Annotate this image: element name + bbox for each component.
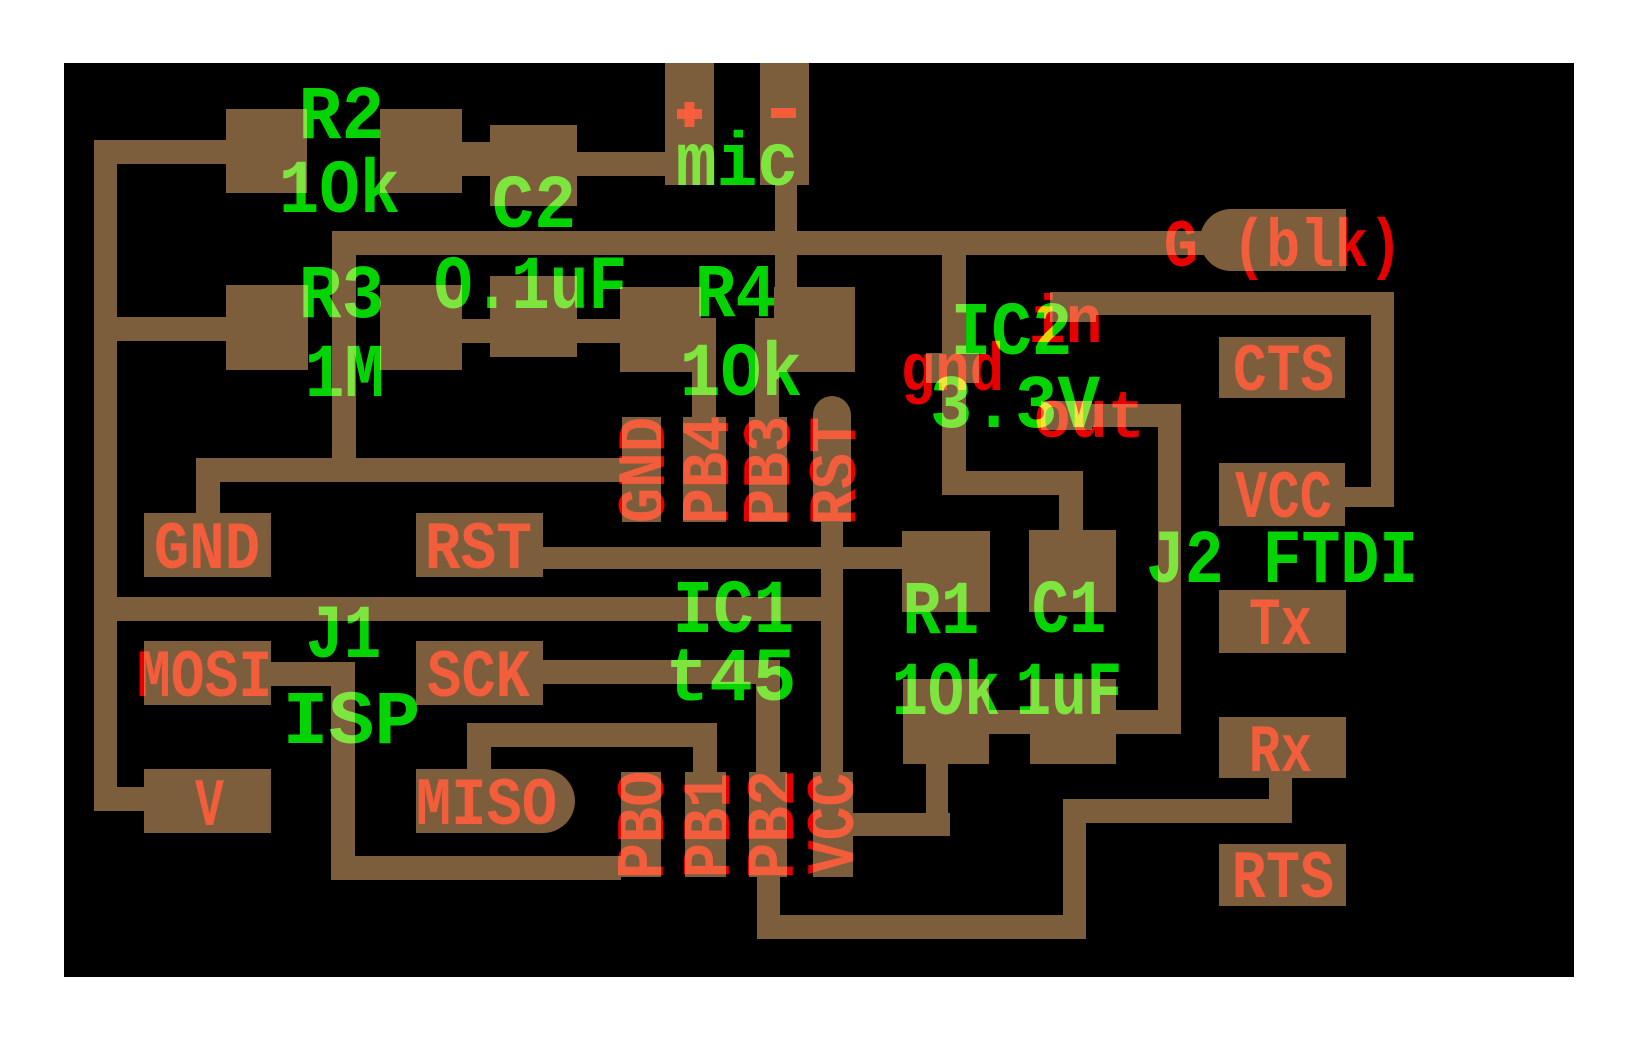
resistor R1 pad bottom bbox=[903, 679, 989, 764]
svg-text:GND: GND bbox=[154, 512, 260, 589]
wire Rx horizontal bbox=[1063, 799, 1292, 823]
header pad MOSI bbox=[144, 641, 271, 705]
wire H5 RST trace bbox=[543, 547, 902, 569]
svg-text:R4: R4 bbox=[695, 253, 777, 339]
mic pad minus bbox=[760, 63, 809, 185]
wire PB2 drop bottom bbox=[757, 877, 780, 939]
wire MISO up-leg bbox=[467, 723, 491, 769]
svg-text:J1: J1 bbox=[306, 594, 382, 680]
wire H2 to R3L bbox=[94, 317, 226, 341]
svg-text:MOSI: MOSI bbox=[137, 640, 272, 717]
svg-text:VCC: VCC bbox=[797, 773, 874, 874]
wire loop vertical right bbox=[1371, 292, 1394, 507]
wire PB3 drop bbox=[755, 318, 779, 417]
svg-text:in: in bbox=[1029, 286, 1103, 363]
mic plus mark bbox=[677, 109, 702, 119]
header pad SCK bbox=[416, 641, 543, 705]
wire MOSI link bbox=[271, 662, 355, 686]
wire mic- vertical bbox=[775, 185, 797, 287]
svg-text:t45: t45 bbox=[666, 637, 797, 723]
wire PB2 drop top bbox=[756, 684, 780, 772]
wire R1-C1 bridge bbox=[903, 710, 1031, 734]
FTDI pad Rx bbox=[1219, 717, 1346, 778]
resistor R3 pad right bbox=[380, 285, 462, 370]
IC1 pin PB1 bbox=[685, 772, 726, 877]
wire GND header drop bbox=[196, 482, 220, 513]
IC2 out pad bbox=[1041, 401, 1092, 430]
pad G blk stadium bbox=[1200, 209, 1262, 271]
wire out bar bbox=[1041, 404, 1179, 427]
wire PB4 drop bbox=[692, 318, 716, 417]
svg-text:gnd: gnd bbox=[901, 334, 1005, 411]
header pad V bbox=[144, 769, 271, 833]
FTDI pad VCC bbox=[1219, 463, 1345, 526]
capacitor C2 pad top bbox=[490, 125, 577, 206]
capacitor C1 pad bottom bbox=[1030, 679, 1116, 764]
wire SCK link bbox=[543, 660, 780, 684]
resistor R2 pad right bbox=[380, 109, 462, 193]
svg-text:RTS: RTS bbox=[1232, 841, 1334, 918]
capacitor C1 pad top bbox=[1029, 530, 1116, 612]
resistor R3 pad left bbox=[226, 285, 308, 370]
svg-text:C1: C1 bbox=[1032, 569, 1106, 655]
svg-text:RST: RST bbox=[799, 417, 876, 525]
wire R3R-C2B-R4L bbox=[462, 319, 620, 343]
svg-text:Rx: Rx bbox=[1249, 715, 1312, 792]
wire C1R link bbox=[1110, 710, 1181, 734]
wire PB1 drop bbox=[693, 747, 717, 772]
wire R2R to C2T bbox=[462, 142, 490, 176]
header pad GND bbox=[144, 513, 271, 577]
svg-text:CTS: CTS bbox=[1233, 334, 1334, 411]
wire C2T to mic+ bbox=[577, 152, 665, 176]
pad RST stadium bbox=[813, 396, 851, 434]
svg-text:C2: C2 bbox=[492, 164, 577, 250]
svg-text:mic: mic bbox=[676, 122, 798, 208]
wire 3.3V horizontal bbox=[833, 813, 950, 836]
wire MISO horizontal bbox=[467, 723, 717, 747]
wire V5 vertical bbox=[1158, 404, 1181, 734]
wire V1 left vertical bbox=[94, 140, 117, 811]
FTDI pad RTS bbox=[1219, 844, 1346, 906]
mic minus mark bbox=[771, 108, 796, 118]
resistor R2 pad left bbox=[226, 109, 307, 193]
svg-text:V: V bbox=[195, 769, 224, 846]
wire V3 vertical bbox=[332, 231, 356, 458]
wire H7 in trace bbox=[1055, 292, 1394, 315]
wire GND bus horizontal bbox=[332, 231, 1240, 255]
FTDI pad Tx bbox=[1219, 590, 1346, 653]
FTDI pad CTS bbox=[1219, 337, 1345, 398]
mic pad plus bbox=[665, 63, 714, 185]
svg-text:1M: 1M bbox=[305, 333, 385, 419]
wire gnd L horizontal bbox=[942, 471, 1083, 495]
svg-text:out: out bbox=[1034, 381, 1145, 458]
svg-text:RST: RST bbox=[425, 512, 532, 589]
svg-text:1Ok: 1Ok bbox=[680, 332, 802, 418]
IC1 pin PB3 bbox=[749, 417, 787, 522]
wire RST vertical bbox=[821, 522, 843, 772]
svg-text:R3: R3 bbox=[299, 254, 385, 340]
wire H10 bbox=[757, 915, 1086, 939]
IC2 in pad bbox=[1050, 292, 1096, 322]
wire H8 bbox=[94, 597, 843, 621]
wire V4 upper bbox=[942, 255, 966, 353]
svg-text:1Ok: 1Ok bbox=[892, 651, 1000, 737]
svg-text:VCC: VCC bbox=[1235, 461, 1332, 538]
svg-text:R1: R1 bbox=[903, 570, 980, 656]
IC1 pin GND bbox=[622, 417, 661, 522]
wire H9 bottom bbox=[331, 856, 621, 880]
wire R1 drop bbox=[926, 764, 948, 836]
IC1 pin PB2 bbox=[749, 772, 787, 877]
svg-text:MISO: MISO bbox=[416, 768, 557, 845]
IC1 pin PB4 bbox=[683, 417, 726, 522]
wire gnd L vertical bbox=[1059, 471, 1083, 531]
wire V pad stub bbox=[94, 787, 144, 811]
svg-text:O.1uF: O.1uF bbox=[434, 245, 627, 331]
svg-text:SCK: SCK bbox=[427, 640, 530, 717]
wire H3 bbox=[196, 458, 622, 482]
wire J1 vertical bbox=[331, 662, 355, 880]
wire R2 left link bbox=[94, 140, 226, 164]
capacitor IC2 gnd pad bbox=[926, 353, 979, 383]
svg-text:1uF: 1uF bbox=[1016, 651, 1123, 737]
header pad MISO bbox=[416, 769, 543, 833]
resistor R4 pad right bbox=[774, 287, 855, 372]
header pad RST bbox=[416, 513, 543, 577]
resistor R4 pad left bbox=[620, 287, 701, 372]
svg-text:1Ok: 1Ok bbox=[279, 149, 400, 235]
wire Rx drop bbox=[1269, 778, 1292, 823]
svg-text:G (blk): G (blk) bbox=[1164, 210, 1403, 287]
wire V4 lower bbox=[942, 383, 966, 471]
IC1 pin VCC bbox=[813, 772, 853, 877]
svg-text:ISP: ISP bbox=[283, 680, 421, 766]
IC1 pin PB0 bbox=[621, 772, 661, 877]
capacitor C2 pad bottom bbox=[490, 276, 577, 357]
svg-text:Tx: Tx bbox=[1249, 588, 1312, 665]
wire Rx vertical bbox=[1063, 823, 1086, 939]
wire VCC stub bbox=[1345, 487, 1394, 507]
resistor R1 pad top bbox=[902, 531, 990, 612]
